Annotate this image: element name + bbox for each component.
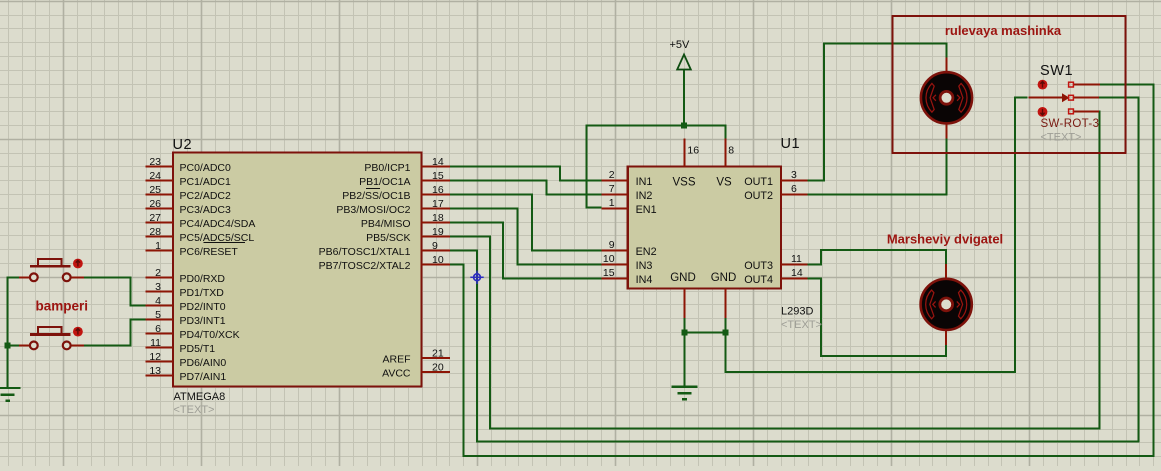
svg-text:EN2: EN2: [636, 246, 657, 258]
svg-text:PD6/AIN0: PD6/AIN0: [180, 357, 227, 369]
svg-text:SW1: SW1: [1040, 63, 1073, 79]
svg-text:1: 1: [609, 197, 615, 209]
svg-text:11: 11: [150, 337, 161, 349]
svg-text:28: 28: [149, 226, 161, 238]
svg-text:EN1: EN1: [636, 204, 657, 216]
svg-text:13: 13: [149, 365, 161, 377]
svg-text:9: 9: [609, 239, 615, 251]
svg-text:IN4: IN4: [636, 274, 653, 286]
svg-text:PB7/TOSC2/XTAL2: PB7/TOSC2/XTAL2: [319, 260, 411, 272]
svg-text:U2: U2: [173, 137, 193, 153]
svg-text:IN2: IN2: [636, 190, 653, 202]
svg-text:10: 10: [603, 253, 615, 265]
svg-text:PC4/ADC4/SDA: PC4/ADC4/SDA: [180, 218, 256, 230]
svg-text:PB3/MOSI/OC2: PB3/MOSI/OC2: [336, 204, 410, 216]
svg-text:5: 5: [155, 309, 161, 321]
svg-text:AREF: AREF: [382, 354, 410, 366]
svg-text:IN1: IN1: [636, 176, 653, 188]
svg-text:PD5/T1: PD5/T1: [180, 343, 216, 355]
svg-text:Marsheviy dvigatel: Marsheviy dvigatel: [887, 232, 1003, 247]
svg-text:25: 25: [149, 184, 161, 196]
svg-text:3: 3: [791, 169, 797, 181]
svg-text:3: 3: [155, 281, 161, 293]
svg-text:IN3: IN3: [636, 260, 653, 272]
svg-text:PC3/ADC3: PC3/ADC3: [180, 204, 232, 216]
svg-text:8: 8: [728, 145, 734, 157]
svg-text:PD7/AIN1: PD7/AIN1: [180, 371, 227, 383]
svg-text:PB0/ICP1: PB0/ICP1: [364, 162, 410, 174]
svg-text:19: 19: [432, 226, 444, 238]
svg-text:PB2/SS/OC1B: PB2/SS/OC1B: [342, 190, 410, 202]
svg-text:PB4/MISO: PB4/MISO: [361, 218, 411, 230]
svg-text:PC6/RESET: PC6/RESET: [180, 246, 239, 258]
svg-text:16: 16: [432, 184, 444, 196]
svg-text:16: 16: [687, 145, 699, 157]
svg-text:rulevaya mashinka: rulevaya mashinka: [945, 23, 1062, 38]
svg-text:VS: VS: [716, 177, 732, 189]
svg-text:24: 24: [149, 170, 161, 182]
svg-text:OUT3: OUT3: [744, 260, 773, 272]
svg-text:4: 4: [155, 295, 161, 307]
svg-text:<TEXT>: <TEXT>: [781, 319, 822, 331]
svg-text:2: 2: [155, 267, 161, 279]
svg-text:14: 14: [432, 156, 444, 168]
svg-text:AVCC: AVCC: [382, 368, 411, 380]
svg-text:SW-ROT-3: SW-ROT-3: [1041, 118, 1100, 130]
svg-text:17: 17: [432, 198, 444, 210]
svg-text:11: 11: [791, 253, 802, 265]
svg-text:6: 6: [791, 183, 797, 195]
svg-text:OUT1: OUT1: [744, 176, 773, 188]
svg-text:15: 15: [432, 170, 444, 182]
svg-text:U1: U1: [781, 136, 801, 152]
svg-text:21: 21: [432, 348, 444, 360]
svg-text:PD1/TXD: PD1/TXD: [180, 287, 225, 299]
svg-text:20: 20: [432, 362, 444, 374]
svg-text:2: 2: [609, 169, 615, 181]
svg-text:PD3/INT1: PD3/INT1: [180, 315, 226, 327]
svg-text:ATMEGA8: ATMEGA8: [174, 391, 226, 403]
svg-text:PD0/RXD: PD0/RXD: [180, 273, 226, 285]
svg-text:PD4/T0/XCK: PD4/T0/XCK: [180, 329, 240, 341]
svg-text:GND: GND: [711, 272, 737, 284]
svg-text:7: 7: [609, 183, 615, 195]
svg-text:OUT2: OUT2: [744, 190, 773, 202]
svg-text:+5V: +5V: [670, 39, 691, 51]
svg-text:PC2/ADC2: PC2/ADC2: [180, 190, 232, 202]
svg-text:15: 15: [603, 267, 615, 279]
svg-text:1: 1: [155, 240, 161, 252]
svg-text:18: 18: [432, 212, 444, 224]
svg-text:PC0/ADC0: PC0/ADC0: [180, 162, 232, 174]
svg-text:OUT4: OUT4: [744, 274, 773, 286]
svg-text:10: 10: [432, 254, 444, 266]
svg-text:<TEXT>: <TEXT>: [1041, 132, 1082, 144]
svg-text:L293D: L293D: [781, 306, 813, 318]
svg-text:PB6/TOSC1/XTAL1: PB6/TOSC1/XTAL1: [319, 246, 411, 258]
svg-text:27: 27: [149, 212, 161, 224]
svg-text:PB5/SCK: PB5/SCK: [366, 232, 410, 244]
svg-text:23: 23: [149, 156, 161, 168]
svg-text:PB1/OC1A: PB1/OC1A: [359, 176, 410, 188]
svg-text:PC1/ADC1: PC1/ADC1: [180, 176, 232, 188]
svg-text:9: 9: [432, 240, 438, 252]
svg-text:26: 26: [149, 198, 161, 210]
svg-text:VSS: VSS: [672, 177, 695, 189]
svg-text:bamperi: bamperi: [36, 299, 89, 314]
svg-text:6: 6: [155, 323, 161, 335]
svg-text:<TEXT>: <TEXT>: [174, 404, 215, 416]
svg-text:14: 14: [791, 267, 803, 279]
svg-text:12: 12: [149, 351, 161, 363]
svg-text:PD2/INT0: PD2/INT0: [180, 301, 226, 313]
svg-text:GND: GND: [670, 272, 696, 284]
